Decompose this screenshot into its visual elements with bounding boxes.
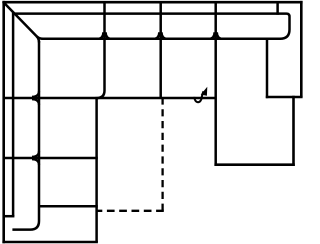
seat seam horizontal middle bbox=[3, 157, 98, 160]
cushion flare seam2 left bbox=[153, 32, 159, 39]
cushion seam 2 bbox=[159, 2, 162, 98]
left backrest end cap bbox=[3, 215, 15, 218]
corner diagonal to horizontal curve bbox=[37, 36, 43, 39]
left cushion front line with bottom corner bbox=[12, 41, 39, 230]
chaise foot edge bbox=[214, 163, 294, 166]
right arm front edge bbox=[266, 96, 303, 99]
cushion flare seam1 right bbox=[106, 32, 112, 39]
left cushion flare seamA top bbox=[32, 91, 39, 97]
cushion flare seam1 left bbox=[98, 32, 104, 39]
sleeper outline dashed vertical bbox=[161, 99, 163, 211]
cushion flare seam3 right bbox=[217, 32, 223, 39]
right backrest divider bbox=[276, 1, 279, 15]
seat seam horizontal lower bbox=[40, 205, 98, 208]
outer bottom edge bbox=[2, 241, 98, 244]
flip arrow loop and stem bbox=[194, 91, 203, 102]
sleeper outline dashed horizontal bbox=[97, 210, 164, 212]
top cushion bottom line bbox=[42, 38, 282, 41]
cushion seam 1 with corner to seat front edge bbox=[97, 2, 105, 242]
cushion flare seam3 left bbox=[209, 32, 215, 39]
seat seam horizontal upper bbox=[3, 97, 216, 100]
top backrest inner line bbox=[14, 12, 278, 15]
right back cushion end cap bbox=[278, 14, 290, 39]
left cushion flare seamA bottom bbox=[32, 99, 39, 105]
left backrest inner line bbox=[12, 12, 15, 216]
left cushion flare seamB top bbox=[32, 151, 39, 157]
corner diagonal bbox=[3, 2, 37, 37]
chaise left seam bbox=[214, 2, 217, 166]
flip arrow head bbox=[201, 87, 208, 96]
outer top edge bbox=[2, 1, 302, 4]
cushion flare seam2 right bbox=[162, 32, 168, 39]
corner diagonal to vertical curve bbox=[37, 36, 39, 42]
outer right edge bbox=[300, 1, 303, 97]
right arm inner line bbox=[266, 38, 269, 98]
left cushion flare seamB bottom bbox=[32, 159, 39, 165]
outer left edge bbox=[2, 1, 5, 243]
chaise right edge bbox=[292, 96, 295, 166]
